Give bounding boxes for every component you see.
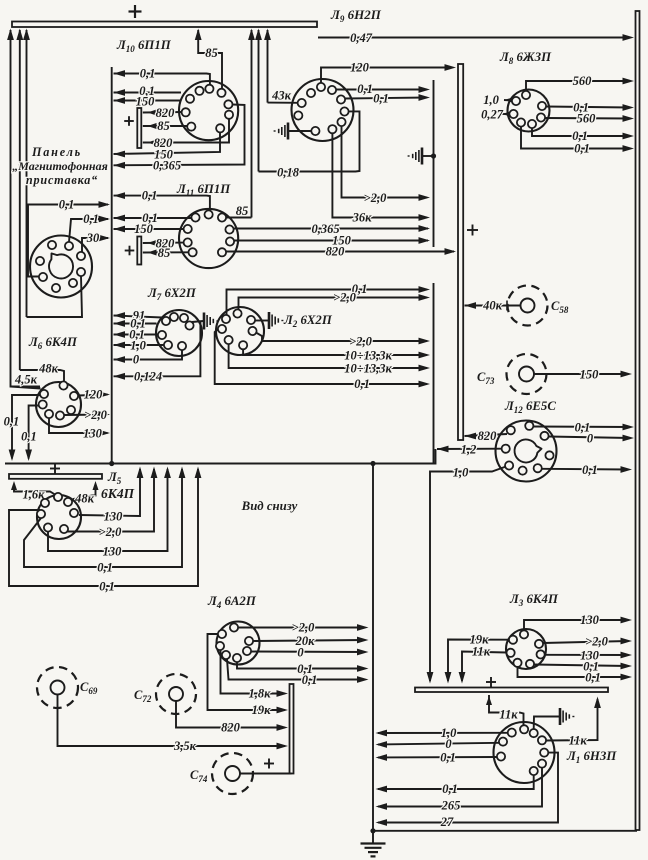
label L12 6E5S bbox=[504, 399, 556, 415]
label 820 (L12) bbox=[478, 429, 498, 443]
wire 0 L7 bbox=[114, 350, 183, 363]
wire 11k L1 from bar bbox=[486, 695, 524, 725]
svg-text:0,365: 0,365 bbox=[153, 159, 181, 173]
label 820 (L10 lower) bbox=[154, 136, 174, 150]
label 0,1 (L8) bbox=[573, 101, 589, 115]
wire bottom horizontal to right bus bbox=[373, 830, 637, 832]
svg-text:820: 820 bbox=[478, 429, 498, 443]
svg-text:130: 130 bbox=[103, 545, 123, 559]
svg-text:0,18: 0,18 bbox=[277, 166, 300, 180]
svg-text:>2,0: >2,0 bbox=[364, 191, 387, 205]
label 0,1 (panel) bbox=[59, 198, 75, 212]
ground at L7 bbox=[192, 313, 218, 330]
label 150 (L11 right) bbox=[332, 234, 352, 248]
capacitor plate bar at L11 bbox=[137, 237, 141, 265]
label + (L3 bar) bbox=[486, 677, 496, 687]
wire left rail vertical bbox=[111, 67, 113, 464]
wire 3,5k C69 to C74 bus bbox=[58, 695, 289, 750]
wire 0,365 L10 bbox=[114, 105, 245, 169]
label L7 6H2P bbox=[147, 286, 197, 302]
label >2,0 (L5) bbox=[99, 525, 122, 539]
label Vid snizu bbox=[241, 499, 298, 513]
label 1,0 (L8) bbox=[483, 93, 499, 107]
wire C74 to bus bbox=[240, 773, 292, 775]
wire 36k L9 to node bbox=[332, 133, 430, 221]
label 0,1 (L12) bbox=[575, 421, 591, 435]
junction dot left rail/chassis bbox=[109, 461, 114, 466]
svg-text:11к: 11к bbox=[569, 734, 588, 748]
label + (C74 polarity) bbox=[264, 759, 274, 769]
label 6K4P (L5) bbox=[101, 486, 135, 501]
label 0 (L4) bbox=[297, 646, 304, 660]
label 1,8k bbox=[249, 687, 272, 701]
label 0,1 (L4 row2) bbox=[302, 673, 318, 687]
wire 48k L5 to bar bbox=[73, 481, 99, 499]
wire >2,0 L3 to bus bbox=[543, 638, 632, 645]
svg-text:0: 0 bbox=[445, 737, 452, 751]
wire 0,1 panel pin2 to rail bbox=[69, 216, 110, 242]
label 0,1 (L5) bbox=[97, 561, 113, 575]
wire 85 from bus to L10 bbox=[195, 29, 222, 90]
junction dot mid/chassis bbox=[370, 461, 375, 466]
wire center vertical to ground bbox=[372, 464, 374, 844]
svg-text:0: 0 bbox=[297, 646, 304, 660]
svg-text:Л12 6Е5С: Л12 6Е5С bbox=[504, 399, 556, 415]
wire 820 L12 to mid bar bbox=[465, 433, 508, 440]
wire long vertical mid 3 to bus (43k) bbox=[264, 29, 271, 103]
wire 0,1 L9 to node bbox=[336, 86, 430, 93]
wire 0,27 L8 left bbox=[502, 111, 514, 118]
svg-text:Л7 6Х2П: Л7 6Х2П bbox=[147, 286, 197, 302]
svg-text:0: 0 bbox=[587, 432, 594, 446]
wire 1,0 L7 row4 bbox=[114, 342, 164, 349]
wire 11k L3 to bar bbox=[459, 652, 507, 684]
svg-text:120: 120 bbox=[84, 388, 104, 402]
tube socket L12 6E5S bbox=[496, 421, 557, 482]
wire 0,1 L12 lower to bus bbox=[542, 466, 632, 473]
label 20k bbox=[295, 634, 316, 648]
label L9 6N2P bbox=[330, 7, 382, 24]
label 0,124 bbox=[134, 370, 162, 384]
wire 0 L1 to center line bbox=[376, 741, 500, 748]
label 0,1 (L6 drop2) bbox=[21, 430, 37, 444]
label 0,1 (L3 row2) bbox=[585, 671, 601, 685]
label 0,1 (L5 row5) bbox=[99, 580, 115, 594]
label + (L11 bar) bbox=[125, 246, 135, 256]
wire 0,1 L3 to bus bbox=[534, 663, 632, 670]
label 43k (L9) bbox=[271, 89, 292, 103]
tube socket L2 6H2P bbox=[216, 307, 264, 355]
wire 130 L5 row3 up-arrow bbox=[48, 467, 171, 552]
label 0,365 (L10) bbox=[153, 159, 181, 173]
label 0,27 (L8) bbox=[481, 108, 504, 122]
svg-text:0,1: 0,1 bbox=[99, 580, 115, 594]
wire 0,1 L7 row2 bbox=[114, 320, 157, 327]
label 1,0 (L12) bbox=[453, 466, 469, 480]
wire top-left vertical 3 to bus bbox=[23, 29, 30, 318]
label 11k (L3) bbox=[472, 645, 491, 659]
capacitor C72 bbox=[156, 674, 196, 714]
label 0,1 (panel 2) bbox=[83, 212, 99, 226]
label 120 (L6) bbox=[84, 388, 104, 402]
label 0,1 (L8 row3) bbox=[572, 129, 588, 143]
tube socket L6 6K4P bbox=[36, 381, 81, 427]
wire 820 C72 to C74 bus bbox=[176, 701, 288, 731]
label C69 bbox=[80, 680, 98, 696]
label + (top bus polarity) bbox=[129, 5, 142, 18]
label C73 bbox=[477, 370, 495, 386]
wire 1,2 L12 bbox=[437, 446, 502, 453]
svg-text:150: 150 bbox=[136, 95, 156, 109]
svg-text:0,1: 0,1 bbox=[302, 673, 318, 687]
label 0 (L12) bbox=[587, 432, 594, 446]
wire 0,1 L10 row2 bbox=[114, 89, 182, 96]
label 85 (L10 screen) bbox=[205, 46, 218, 60]
label >2,0 (L6) bbox=[84, 408, 107, 422]
svg-text:11к: 11к bbox=[499, 708, 518, 722]
svg-text:130: 130 bbox=[580, 613, 600, 627]
svg-text:>2,0: >2,0 bbox=[99, 525, 122, 539]
svg-text:820: 820 bbox=[156, 106, 176, 120]
wire 1,0 L8 left bbox=[504, 97, 516, 104]
svg-text:30: 30 bbox=[86, 231, 100, 245]
label 85 (L11) bbox=[158, 246, 171, 260]
svg-text:0,1: 0,1 bbox=[4, 415, 20, 429]
label 11k (L1 right) bbox=[569, 734, 588, 748]
svg-text:Л4 6А2П: Л4 6А2П bbox=[207, 594, 257, 610]
label L6 6K4P bbox=[28, 335, 78, 351]
label L1 6N3P bbox=[566, 749, 617, 765]
wire 130 L3 row2 to bus bbox=[545, 652, 632, 659]
label 1,0 (L7) bbox=[130, 339, 146, 353]
wire 820 L11 to plate bar bbox=[143, 240, 184, 246]
wire 10-13,3k L2 to node bbox=[243, 350, 430, 359]
svg-text:>2,0: >2,0 bbox=[333, 291, 356, 305]
tube socket L9 6N2P bbox=[292, 79, 354, 141]
svg-text:0,1: 0,1 bbox=[574, 142, 590, 156]
wire 0 L4 to center line bbox=[251, 649, 368, 656]
svg-text:85: 85 bbox=[205, 46, 218, 60]
svg-text:0,124: 0,124 bbox=[134, 370, 162, 384]
svg-text:0,1: 0,1 bbox=[373, 92, 389, 106]
svg-text:10÷13,3к: 10÷13,3к bbox=[344, 362, 392, 376]
tube socket L3 6K4P bbox=[506, 629, 546, 669]
wire >2,0 L5 up-arrow bbox=[67, 467, 157, 532]
bus bar at L3/L1 bbox=[415, 688, 608, 693]
label 560 (L8 row2) bbox=[577, 112, 597, 126]
bus C74 vertical bar bbox=[290, 684, 294, 774]
svg-text:приставка“: приставка“ bbox=[26, 173, 98, 187]
wire lower middle vertical node bbox=[433, 283, 435, 464]
bus bar at L5 bbox=[9, 474, 102, 479]
wire 560 L8 row2 to bus bbox=[545, 115, 634, 122]
wire 19k L3 to bar bbox=[445, 640, 509, 684]
svg-text:6К4П: 6К4П bbox=[101, 486, 135, 501]
wire 150 L11 bbox=[114, 226, 184, 233]
label 0,1 (L9) bbox=[357, 82, 373, 96]
wire 1,0 L1 to center line bbox=[376, 730, 509, 737]
label 0,1 (L11 row2) bbox=[142, 211, 158, 225]
wire 0,1 L1 bottom to center line bbox=[376, 775, 534, 792]
label L8 6Zh3P bbox=[499, 50, 552, 66]
label 85 (L10 cathode) bbox=[157, 119, 170, 133]
tube socket L10 6P1P bbox=[179, 81, 238, 140]
svg-text:>2,0: >2,0 bbox=[585, 635, 608, 649]
wire 1,0 L12 down to L3 bar bbox=[427, 467, 506, 684]
wire 0,1 L8 to bus bbox=[546, 104, 634, 111]
svg-text:10÷13,3к: 10÷13,3к bbox=[344, 349, 392, 363]
svg-text:40к: 40к bbox=[482, 299, 503, 313]
wire 48k from bus 2 to L6 bbox=[20, 370, 64, 382]
bus + supply bar (top) bbox=[12, 22, 317, 28]
label 30 (panel) bbox=[86, 231, 100, 245]
svg-text:1,0: 1,0 bbox=[453, 466, 469, 480]
svg-text:>2,0: >2,0 bbox=[84, 408, 107, 422]
wire 130 L5 up-arrow bbox=[79, 467, 143, 517]
tube socket L1 6N3P bbox=[494, 722, 555, 783]
label 0,1 (L8 row4) bbox=[574, 142, 590, 156]
label 820 (C72) bbox=[221, 721, 241, 735]
wire 0,47 to right bus bbox=[318, 34, 634, 41]
wire 0,1 L2 top to node bbox=[227, 286, 431, 315]
svg-text:1,2: 1,2 bbox=[461, 443, 477, 457]
label L4 6A2P bbox=[207, 594, 257, 610]
wire 0,1 L6 down-arrow 1 bbox=[9, 395, 41, 461]
wire 1,8k L4 to C74 bus bbox=[221, 650, 289, 697]
svg-text:0,1: 0,1 bbox=[440, 751, 456, 765]
tube socket L7 6H2P bbox=[156, 310, 202, 356]
label 0,1 (L4) bbox=[297, 662, 313, 676]
label 560 (L8) bbox=[573, 74, 593, 88]
label 85 (L11 right) bbox=[236, 204, 249, 218]
svg-text:150: 150 bbox=[580, 368, 600, 382]
svg-text:560: 560 bbox=[573, 74, 593, 88]
wire long vertical mid 1 to bus bbox=[248, 29, 255, 218]
label >2,0 (L3) bbox=[585, 635, 608, 649]
wire 85 L11 to plate bar bbox=[143, 250, 189, 256]
svg-text:0,1: 0,1 bbox=[357, 82, 373, 96]
label 0,18 bbox=[277, 166, 300, 180]
label 40k bbox=[482, 299, 503, 313]
svg-text:0,1: 0,1 bbox=[354, 377, 370, 391]
label 0,1 (L7 row2) bbox=[130, 317, 146, 331]
wire top-left vertical 2 to bus (48k) bbox=[16, 29, 23, 371]
svg-text:Л3 6К4П: Л3 6К4П bbox=[509, 592, 559, 608]
wire 120 L9 to mid bar bbox=[321, 64, 456, 91]
wire 0,1 L5 up-arrow bbox=[24, 467, 185, 568]
tube socket L5 6K4P bbox=[37, 493, 81, 539]
bus middle vertical bar bbox=[458, 64, 463, 440]
svg-text:150: 150 bbox=[134, 222, 154, 236]
wire 10-13,3k L2 row2 to node bbox=[229, 344, 430, 371]
tube socket L11 6P1P bbox=[179, 209, 238, 268]
wire 150 L10 row3 bbox=[114, 97, 182, 104]
wire 0,1 panel pin to rail bbox=[28, 201, 110, 276]
svg-text:0,1: 0,1 bbox=[59, 198, 75, 212]
wire >2,0 L6 to rail bbox=[64, 411, 110, 418]
label 0,1 (L3) bbox=[583, 660, 599, 674]
capacitor C58 bbox=[508, 286, 548, 326]
wire 43k from bus to L9 bbox=[268, 102, 298, 104]
label 150 (C73) bbox=[580, 368, 600, 382]
label 0,1 (L9 row2) bbox=[373, 92, 389, 106]
wire 27 L1 to center line bbox=[376, 753, 559, 826]
wire 0,1 L7 row3 bbox=[114, 331, 158, 338]
capacitor C69 bbox=[37, 667, 78, 708]
label C58 bbox=[551, 299, 569, 315]
label 0,1 (L12 lower) bbox=[582, 463, 598, 477]
svg-text:3,5к: 3,5к bbox=[173, 739, 197, 753]
svg-text:0,1: 0,1 bbox=[442, 782, 458, 796]
label 0,1 (L2 top) bbox=[352, 282, 368, 296]
label 0,47 bbox=[350, 31, 373, 45]
wire 820 L10 to plate bar bbox=[143, 110, 184, 116]
label 1,2 bbox=[461, 443, 477, 457]
wire 0,1 L12 to bus bbox=[534, 424, 635, 431]
label 265 bbox=[441, 799, 461, 813]
label 48k (L6) bbox=[38, 362, 59, 376]
svg-text:4,5к: 4,5к bbox=[14, 373, 38, 387]
svg-text:0,1: 0,1 bbox=[83, 212, 99, 226]
wire 0,1 L10 pin1 bbox=[114, 70, 210, 85]
wire 820 L10 row lower bbox=[143, 119, 229, 146]
svg-text:820: 820 bbox=[221, 721, 241, 735]
label 820 (L11) bbox=[156, 237, 176, 251]
svg-text:>2,0: >2,0 bbox=[349, 335, 372, 349]
svg-text:0,27: 0,27 bbox=[481, 108, 504, 122]
label 19k (L3) bbox=[470, 633, 490, 647]
label 27 bbox=[440, 815, 454, 829]
wire 4,5k from bus 1 to L6 bbox=[11, 387, 41, 389]
svg-text:0,1: 0,1 bbox=[97, 561, 113, 575]
label 0 (L7) bbox=[133, 353, 140, 367]
label 10-13,3k bbox=[344, 349, 392, 363]
label L11 6P1P bbox=[176, 182, 231, 198]
svg-text:Л10 6П1П: Л10 6П1П bbox=[116, 38, 172, 54]
wire 0,1 L3 row2 to bus bbox=[518, 667, 633, 681]
wire 0 L12 to bus bbox=[549, 435, 634, 442]
ground at upper middle node bbox=[408, 148, 437, 165]
ground bottom center bbox=[361, 844, 386, 857]
svg-text:130: 130 bbox=[104, 510, 124, 524]
svg-text:85: 85 bbox=[236, 204, 249, 218]
label 150 (L10 lower) bbox=[154, 148, 174, 162]
wire 0,1 L2 left loop to node bbox=[215, 329, 430, 387]
label 0 (L1) bbox=[445, 737, 452, 751]
svg-text:560: 560 bbox=[577, 112, 597, 126]
label 4,5k bbox=[14, 373, 38, 387]
svg-text:85: 85 bbox=[158, 246, 171, 260]
label + (middle bar polarity) bbox=[467, 225, 478, 236]
wire 85 L11 right to bus bbox=[226, 217, 252, 219]
wire 0,1 L4 to center line bbox=[237, 662, 369, 672]
label 150 (L11) bbox=[134, 222, 154, 236]
wire 0,1 L8 row3 to bus bbox=[532, 128, 634, 139]
label 0,365 (L11 right) bbox=[311, 222, 339, 236]
wire 85 L10 to plate bar bbox=[143, 123, 188, 129]
wire 0,124 L7 bbox=[114, 322, 201, 380]
label 120 (L9) bbox=[350, 61, 370, 75]
label C72 bbox=[134, 688, 152, 704]
ground at L9 bbox=[274, 123, 312, 140]
label C74 bbox=[190, 768, 208, 784]
label + (L5 bar) bbox=[50, 464, 60, 474]
label 130 (L5 row3) bbox=[103, 545, 123, 559]
wire 130 L6 to rail bbox=[49, 418, 110, 436]
svg-text:Л6 6К4П: Л6 6К4П bbox=[28, 335, 78, 351]
wire 120 L6 to rail bbox=[78, 391, 110, 398]
wire 0,18 loop bbox=[259, 111, 360, 171]
svg-text:0,1: 0,1 bbox=[585, 671, 601, 685]
svg-text:130: 130 bbox=[83, 427, 103, 441]
svg-text:27: 27 bbox=[440, 815, 454, 829]
wire upper middle vertical node bbox=[433, 80, 435, 247]
label 820 (L10) bbox=[156, 106, 176, 120]
svg-text:11к: 11к bbox=[472, 645, 491, 659]
wire 130 L3 to bus bbox=[524, 617, 632, 631]
capacitor plate bar at L10 bbox=[137, 108, 141, 148]
wire >2,0 L9 to node bbox=[342, 126, 431, 201]
label 0,1 (L2 loop) bbox=[354, 377, 370, 391]
svg-text:1,0: 1,0 bbox=[483, 93, 499, 107]
label >2,0 (L2 right) bbox=[349, 335, 372, 349]
label 11k (L1 left) bbox=[499, 708, 518, 722]
wire 19k L4 to C74 bus bbox=[208, 634, 289, 713]
label 820 (L11 right) bbox=[326, 245, 346, 259]
label 0,1 (L6 drop1) bbox=[4, 415, 20, 429]
svg-text:48к: 48к bbox=[38, 362, 59, 376]
label L10 6P1P bbox=[116, 38, 172, 54]
label >2,0 (L4) bbox=[292, 621, 315, 635]
label 0,1 (L10 row2) bbox=[139, 84, 155, 98]
label 130 (L3 row2) bbox=[580, 649, 600, 663]
svg-text:Л9 6Н2П: Л9 6Н2П bbox=[330, 7, 382, 24]
wire 0,365 L11 to node bbox=[234, 225, 430, 232]
wire long vertical mid 2 to bus (0,18) bbox=[255, 29, 262, 172]
svg-text:120: 120 bbox=[350, 61, 370, 75]
svg-text:>2,0: >2,0 bbox=[292, 621, 315, 635]
wire 91 L7 bbox=[114, 312, 163, 319]
svg-text:„Магнитофонная: „Магнитофонная bbox=[12, 159, 108, 173]
svg-text:Л2 6Х2П: Л2 6Х2П bbox=[283, 313, 333, 329]
svg-text:265: 265 bbox=[441, 799, 461, 813]
wire 40k C58 to mid bar bbox=[465, 301, 521, 311]
wire 20k L4 to center line bbox=[253, 637, 368, 644]
octal socket Panel bbox=[30, 236, 92, 298]
wire 150 L10 lower bbox=[114, 132, 221, 157]
ground at L1 bbox=[534, 708, 575, 729]
svg-text:43к: 43к bbox=[271, 89, 292, 103]
label 150 (L10) bbox=[136, 95, 156, 109]
label 10-13,3k row2 bbox=[344, 362, 392, 376]
svg-text:0,1: 0,1 bbox=[582, 463, 598, 477]
wire >2,0 L2 top2 to node bbox=[239, 294, 431, 318]
wire horizontal chassis line bbox=[5, 449, 436, 464]
capacitor C74 bbox=[212, 753, 253, 794]
label >2,0 (L2 top) bbox=[333, 291, 356, 305]
tube socket L8 6Zh3P bbox=[508, 90, 550, 132]
ground at L2 bbox=[255, 312, 283, 329]
wire 0,1 L5 row5 up-arrow bbox=[9, 467, 201, 587]
wire 820 L11 to mid bar bbox=[226, 248, 456, 255]
wire 0,1 L4 row2 to center line bbox=[227, 659, 369, 683]
label 1,0 (L1) bbox=[441, 726, 457, 740]
label + (L10 bar) bbox=[124, 116, 134, 126]
wire 0,1 L1 to center line bbox=[376, 754, 498, 761]
wire 150 L11 to node bbox=[234, 237, 430, 244]
wire 0,1 L9 row2 to node bbox=[345, 94, 430, 101]
capacitor C73 bbox=[507, 354, 547, 394]
